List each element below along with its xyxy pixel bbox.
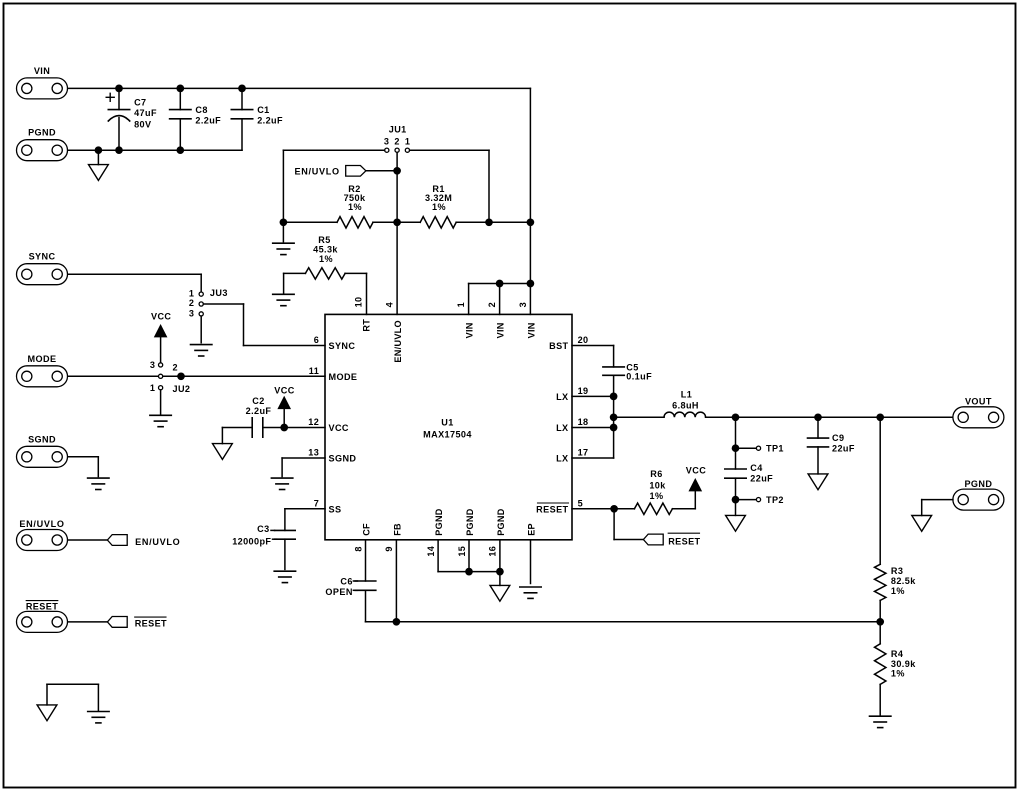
wire C4 lower [735, 478, 737, 515]
wire VOUT to R3 [879, 417, 881, 564]
ground SGND pin13 [271, 478, 292, 489]
svg-text:EP: EP [526, 523, 536, 536]
label R2 [344, 184, 366, 212]
label JU3 pin numbers [189, 289, 194, 319]
svg-text:PGND: PGND [496, 508, 506, 536]
svg-text:C2: C2 [252, 396, 264, 406]
svg-text:TP2: TP2 [766, 495, 784, 505]
inductor L1 [664, 412, 706, 417]
pin 19 LX [556, 386, 588, 402]
svg-text:EN/UVLO: EN/UVLO [19, 519, 64, 529]
wire R3 to R4 [879, 600, 881, 643]
svg-text:C8: C8 [195, 105, 207, 115]
svg-text:C6: C6 [340, 576, 352, 586]
svg-text:82.5k: 82.5k [891, 576, 916, 586]
wire R2 gnd stub [282, 222, 284, 241]
plus sign C7 [106, 93, 114, 101]
pin 4 EN/UVLO [384, 301, 403, 362]
ground C9 [808, 474, 828, 490]
svg-text:R5: R5 [318, 235, 330, 245]
flag EN/UVLO left [107, 535, 127, 546]
pin 18 LX [556, 417, 588, 433]
wire gnd stub [97, 150, 99, 164]
label C8 [195, 105, 221, 125]
jumper JU1 pin 3 [385, 148, 389, 152]
connector pad EN/UVLO [17, 530, 68, 551]
svg-text:13: 13 [308, 448, 319, 458]
node PGND15 [465, 568, 473, 576]
wire gnd tie [47, 684, 98, 710]
svg-text:TP1: TP1 [766, 444, 784, 454]
wire PGND right [922, 500, 953, 516]
wire RESET to flag [614, 509, 643, 540]
svg-text:SYNC: SYNC [29, 252, 56, 262]
pin 8 CF [353, 523, 371, 552]
svg-text:1: 1 [456, 302, 466, 307]
ground JU3 [191, 345, 212, 356]
svg-text:C1: C1 [257, 105, 269, 115]
node PGND16 [496, 568, 504, 576]
node EN/UVLO junction [393, 167, 401, 175]
wire R2 row [283, 221, 530, 223]
node JU2 mode junction [177, 372, 185, 380]
svg-text:VIN: VIN [34, 66, 50, 76]
node VCC junction [280, 424, 288, 432]
power VCC arrow JU2 [155, 326, 166, 337]
svg-text:2.2uF: 2.2uF [257, 115, 283, 125]
wire R6 to VCC [672, 490, 695, 509]
connector pad SYNC [17, 264, 68, 285]
svg-text:1%: 1% [891, 669, 905, 679]
svg-text:19: 19 [578, 386, 589, 396]
node rail R1 [527, 218, 535, 226]
pin 14 PGND [426, 508, 444, 556]
wire C6 to FB line [366, 590, 881, 622]
pin 1 VIN [456, 302, 475, 338]
jumper JU1 pin 2 [395, 148, 399, 152]
node R1 right [485, 218, 493, 226]
flag RESET right [643, 534, 663, 545]
svg-text:VCC: VCC [151, 311, 171, 321]
connector pad VIN [17, 78, 68, 99]
svg-text:R6: R6 [650, 469, 662, 479]
ground tie bars [88, 712, 109, 723]
svg-text:FB: FB [392, 523, 402, 536]
svg-text:10: 10 [353, 297, 363, 308]
node R2-R1 mid [393, 218, 401, 226]
svg-text:MODE: MODE [28, 354, 57, 364]
capacitor C3 [275, 530, 296, 539]
ground PGND right [912, 516, 932, 532]
svg-text:16: 16 [488, 546, 498, 557]
svg-text:12000pF: 12000pF [232, 536, 271, 546]
svg-text:SGND: SGND [28, 434, 56, 444]
svg-text:1%: 1% [650, 491, 664, 501]
ground PGND input [89, 165, 109, 181]
wire EP [530, 540, 532, 584]
svg-text:JU3: JU3 [210, 288, 228, 298]
svg-text:45.3k: 45.3k [313, 244, 338, 254]
wire TP1 stub [736, 447, 757, 449]
op-amp U1 MAX17504 body [325, 314, 572, 539]
wire RESET pin5 [572, 508, 634, 510]
svg-text:30.9k: 30.9k [891, 659, 916, 669]
wire JU2 pin1 gnd [160, 390, 162, 414]
svg-text:RESET: RESET [668, 536, 700, 546]
svg-text:3: 3 [518, 302, 528, 307]
svg-text:SGND: SGND [329, 454, 357, 464]
power VCC arrow C2 [279, 397, 290, 408]
svg-text:RESET: RESET [135, 618, 167, 628]
svg-text:17: 17 [578, 448, 589, 458]
svg-text:6: 6 [314, 335, 319, 345]
pin 3 VIN [518, 302, 537, 338]
svg-text:C4: C4 [750, 463, 763, 473]
svg-text:7: 7 [314, 498, 319, 508]
pin 6 SYNC [314, 335, 356, 351]
label R5 [313, 235, 338, 264]
wire TP2 stub [736, 499, 757, 501]
wire BST [572, 346, 614, 367]
ground C4 [726, 515, 746, 531]
testpoint TP2 [756, 498, 760, 502]
svg-text:1: 1 [189, 289, 194, 299]
node R3 branch [876, 413, 884, 421]
svg-text:VCC: VCC [329, 423, 349, 433]
svg-text:1%: 1% [432, 202, 446, 212]
svg-text:C3: C3 [257, 524, 269, 534]
svg-text:10k: 10k [649, 480, 666, 490]
svg-text:RESET: RESET [536, 504, 568, 514]
connector pad SGND [17, 446, 68, 467]
wire C2 right to VCC pin [263, 427, 325, 429]
node FB junction [393, 618, 401, 626]
svg-text:VIN: VIN [526, 322, 536, 338]
svg-text:LX: LX [556, 454, 568, 464]
resistor R3 [875, 564, 886, 600]
wire LX to L1 [614, 416, 664, 418]
svg-text:PGND: PGND [28, 128, 56, 138]
connector pad PGND [17, 140, 68, 161]
capacitor C7 [108, 88, 129, 150]
label C1 [257, 105, 283, 125]
capacitor C8 [170, 88, 191, 150]
ground PGND16 [490, 585, 510, 601]
pin 13 SGND [308, 448, 356, 464]
svg-text:BST: BST [549, 341, 568, 351]
wire C4 branch upper [735, 417, 737, 469]
svg-text:47uF: 47uF [134, 108, 157, 118]
wire JU3 pin3 gnd [200, 316, 202, 343]
flag RESET left [107, 617, 127, 628]
wire flag to node [366, 170, 397, 172]
label C6 [325, 576, 357, 597]
svg-text:RESET: RESET [26, 601, 58, 611]
svg-text:8: 8 [353, 546, 363, 551]
wire VIN rail top [68, 87, 530, 89]
svg-text:VOUT: VOUT [965, 397, 992, 407]
svg-text:3: 3 [150, 360, 155, 370]
wire JU1 pin2 down [396, 152, 398, 314]
ground tie triangle [37, 705, 57, 721]
wire SS pin [285, 509, 325, 531]
node R2 left [280, 218, 288, 226]
svg-text:MAX17504: MAX17504 [423, 429, 472, 439]
wire C9 lower [817, 447, 819, 474]
pin 17 LX [556, 448, 588, 464]
label C3 [232, 524, 276, 546]
capacitor C9 [808, 438, 829, 447]
label U1 [423, 417, 472, 439]
ground R2 [273, 243, 294, 254]
svg-text:1: 1 [405, 136, 410, 146]
svg-text:1%: 1% [891, 586, 905, 596]
wire VCC arrow stem [283, 408, 285, 428]
wire C3 gnd [284, 539, 286, 569]
node C8 bottom [176, 146, 184, 154]
pin 2 VIN [487, 302, 506, 338]
wire PGND16 [469, 540, 500, 586]
svg-text:14: 14 [426, 545, 436, 556]
svg-text:9: 9 [384, 546, 394, 551]
svg-text:22uF: 22uF [750, 473, 773, 483]
node TP1 [732, 444, 740, 452]
power VCC arrow R6 [690, 480, 701, 491]
node LX18 [610, 424, 618, 432]
wire VOUT line [706, 416, 953, 418]
capacitor C2 [252, 418, 263, 437]
svg-text:EN/UVLO: EN/UVLO [393, 320, 403, 363]
svg-text:MODE: MODE [329, 372, 358, 382]
node C8 top [176, 85, 184, 93]
resistor R6 [634, 503, 672, 514]
svg-text:2.2uF: 2.2uF [246, 406, 272, 416]
node PGND gnd branch [95, 146, 103, 154]
node C4 branch [732, 413, 740, 421]
svg-text:U1: U1 [441, 417, 453, 427]
label R1 [425, 184, 452, 212]
wire VIN rail right drop [529, 88, 531, 314]
flag EN/UVLO at JU1 [346, 166, 366, 177]
wire C2 left gnd [222, 428, 252, 444]
svg-text:LX: LX [556, 392, 568, 402]
svg-text:CF: CF [361, 523, 371, 536]
label L1 [672, 390, 699, 411]
node LX out [610, 413, 618, 421]
svg-text:R4: R4 [891, 649, 904, 659]
svg-text:20: 20 [578, 335, 589, 345]
svg-text:OPEN: OPEN [325, 587, 352, 597]
label RESET pad [26, 601, 58, 612]
wire FB pin [395, 540, 397, 622]
svg-text:2: 2 [487, 302, 497, 307]
wire PGND rail [68, 149, 242, 151]
svg-text:C7: C7 [134, 97, 146, 107]
svg-text:JU1: JU1 [389, 124, 407, 134]
label JU1 pins 3 2 1 [384, 136, 410, 146]
svg-text:4: 4 [384, 301, 394, 307]
label C9 [832, 433, 855, 454]
wire LX column [572, 375, 614, 458]
node VIN pin3 bus [527, 280, 535, 288]
pin 11 MODE [309, 366, 358, 382]
capacitor C4 [725, 469, 746, 478]
svg-text:2: 2 [173, 363, 178, 373]
svg-text:SYNC: SYNC [329, 341, 356, 351]
svg-text:PGND: PGND [434, 508, 444, 536]
wire JU1 pin3 left [283, 150, 384, 222]
ground R4 [870, 716, 891, 727]
svg-text:VIN: VIN [464, 322, 474, 338]
pin 16 PGND [488, 508, 506, 556]
testpoint TP1 [756, 446, 760, 450]
label C5 [626, 362, 652, 381]
label R4 [891, 649, 916, 679]
svg-text:6.8uH: 6.8uH [672, 400, 699, 410]
wire VIN pin bus [469, 284, 531, 315]
svg-text:L1: L1 [681, 390, 692, 400]
ground C3 [274, 571, 295, 582]
wire PGND15 [468, 540, 470, 572]
resistor R2 [337, 217, 373, 228]
wire JU3 pin2 to SYNC pin [203, 304, 325, 346]
wire VCC to JU2 pin3 [160, 336, 162, 363]
capacitor C6 [355, 581, 376, 590]
connector pad RESET [17, 611, 68, 632]
wire PGND14 [438, 540, 469, 572]
svg-text:12: 12 [308, 417, 319, 427]
node RESET junction [610, 505, 618, 513]
svg-text:1: 1 [150, 383, 155, 393]
label C7 [134, 97, 157, 129]
ground SGND pad [88, 478, 109, 489]
node C7 top [115, 85, 123, 93]
label RESET flag text [135, 617, 167, 628]
ground C2 [213, 444, 233, 460]
svg-text:VCC: VCC [686, 465, 706, 475]
svg-text:3: 3 [384, 136, 389, 146]
svg-text:1%: 1% [319, 254, 333, 264]
pin 7 SS [314, 498, 342, 514]
svg-text:EN/UVLO: EN/UVLO [135, 537, 180, 547]
jumper JU3 pin 2 [199, 302, 203, 306]
svg-text:3: 3 [189, 309, 194, 319]
jumper JU3 pin 1 [199, 292, 203, 296]
connector pad PGND right [953, 489, 1004, 510]
wire EN/UVLO pad to flag [68, 539, 107, 541]
svg-text:5: 5 [578, 498, 583, 508]
svg-text:EN/UVLO: EN/UVLO [294, 166, 339, 176]
ground R5 [273, 294, 294, 305]
jumper JU2 pin 2 [159, 374, 163, 378]
capacitor C5 [603, 367, 624, 375]
svg-text:0.1uF: 0.1uF [626, 372, 652, 382]
wire SGND gnd [68, 457, 98, 477]
node C9 branch [814, 413, 822, 421]
label C2 [246, 396, 272, 416]
jumper JU2 pin 3 [159, 363, 163, 367]
capacitor C1 [231, 88, 252, 150]
wire RESET pad to flag [68, 621, 107, 623]
svg-text:SS: SS [329, 504, 342, 514]
svg-text:R3: R3 [891, 566, 903, 576]
svg-text:1%: 1% [348, 202, 362, 212]
node FB divider [876, 618, 884, 626]
svg-text:15: 15 [457, 546, 467, 557]
svg-text:VCC: VCC [274, 386, 294, 396]
wire SGND pin13 [282, 458, 325, 477]
label RESET right flag [668, 533, 700, 546]
connector pad MODE [17, 366, 68, 387]
svg-text:2: 2 [394, 136, 399, 146]
node C7 bottom [115, 146, 123, 154]
pin 5 RESET [536, 498, 583, 514]
svg-text:VIN: VIN [495, 322, 505, 338]
pin 10 RT [353, 297, 371, 332]
node C1 top [238, 85, 246, 93]
svg-text:22uF: 22uF [832, 443, 855, 453]
pin 9 FB [384, 523, 402, 552]
resistor R1 [420, 217, 456, 228]
resistor R4 [875, 644, 886, 685]
label R6 [649, 469, 666, 501]
connector pad VOUT [953, 407, 1004, 428]
node VIN pin2 bus [496, 280, 504, 288]
pin 15 PGND [457, 508, 475, 556]
svg-text:C9: C9 [832, 433, 844, 443]
wire R5 right to RT [345, 273, 366, 314]
wire JU1 pin1 right [410, 150, 489, 222]
svg-text:80V: 80V [134, 119, 151, 129]
wire MODE to IC [68, 375, 325, 377]
ground EP [520, 587, 541, 598]
jumper JU2 pin 1 [159, 386, 163, 390]
svg-text:11: 11 [309, 366, 319, 376]
svg-text:2.2uF: 2.2uF [195, 115, 221, 125]
label R3 [891, 566, 916, 596]
svg-text:2: 2 [189, 298, 194, 308]
ground JU2 [150, 415, 171, 426]
svg-text:PGND: PGND [465, 508, 475, 536]
svg-text:RT: RT [362, 319, 372, 332]
jumper JU3 pin 3 [199, 312, 203, 316]
svg-text:PGND: PGND [964, 479, 992, 489]
node LX19 [610, 393, 618, 401]
wire SYNC to JU3 [68, 274, 201, 292]
wire R5 left [284, 273, 306, 292]
wire R4 gnd [879, 684, 881, 715]
wire CF pin [365, 540, 367, 581]
label C4 [750, 463, 773, 483]
svg-text:18: 18 [578, 417, 589, 427]
resistor R5 [305, 268, 345, 279]
svg-text:JU2: JU2 [173, 384, 191, 394]
wire C9 upper [817, 417, 819, 438]
node TP2 [732, 496, 740, 504]
pin 12 VCC [308, 417, 349, 433]
pin 20 BST [549, 335, 588, 351]
jumper JU1 pin 1 [405, 148, 409, 152]
svg-text:LX: LX [556, 423, 568, 433]
